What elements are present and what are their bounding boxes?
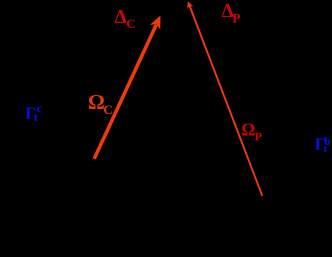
svg-text:Δ: Δ: [115, 7, 127, 28]
svg-text:C: C: [126, 16, 135, 31]
probe arrow head: [187, 1, 193, 9]
svg-text:Ω: Ω: [241, 119, 255, 139]
svg-text:Ω: Ω: [88, 90, 105, 114]
coupling arrow shaft: [94, 25, 156, 159]
svg-text:t: t: [323, 143, 327, 155]
probe arrow shaft: [190, 6, 263, 196]
coupling arrow head: [150, 16, 161, 30]
svg-text:C: C: [103, 102, 112, 117]
svg-text:P: P: [255, 129, 262, 143]
svg-text:t: t: [34, 110, 38, 124]
svg-text:P: P: [232, 11, 240, 26]
